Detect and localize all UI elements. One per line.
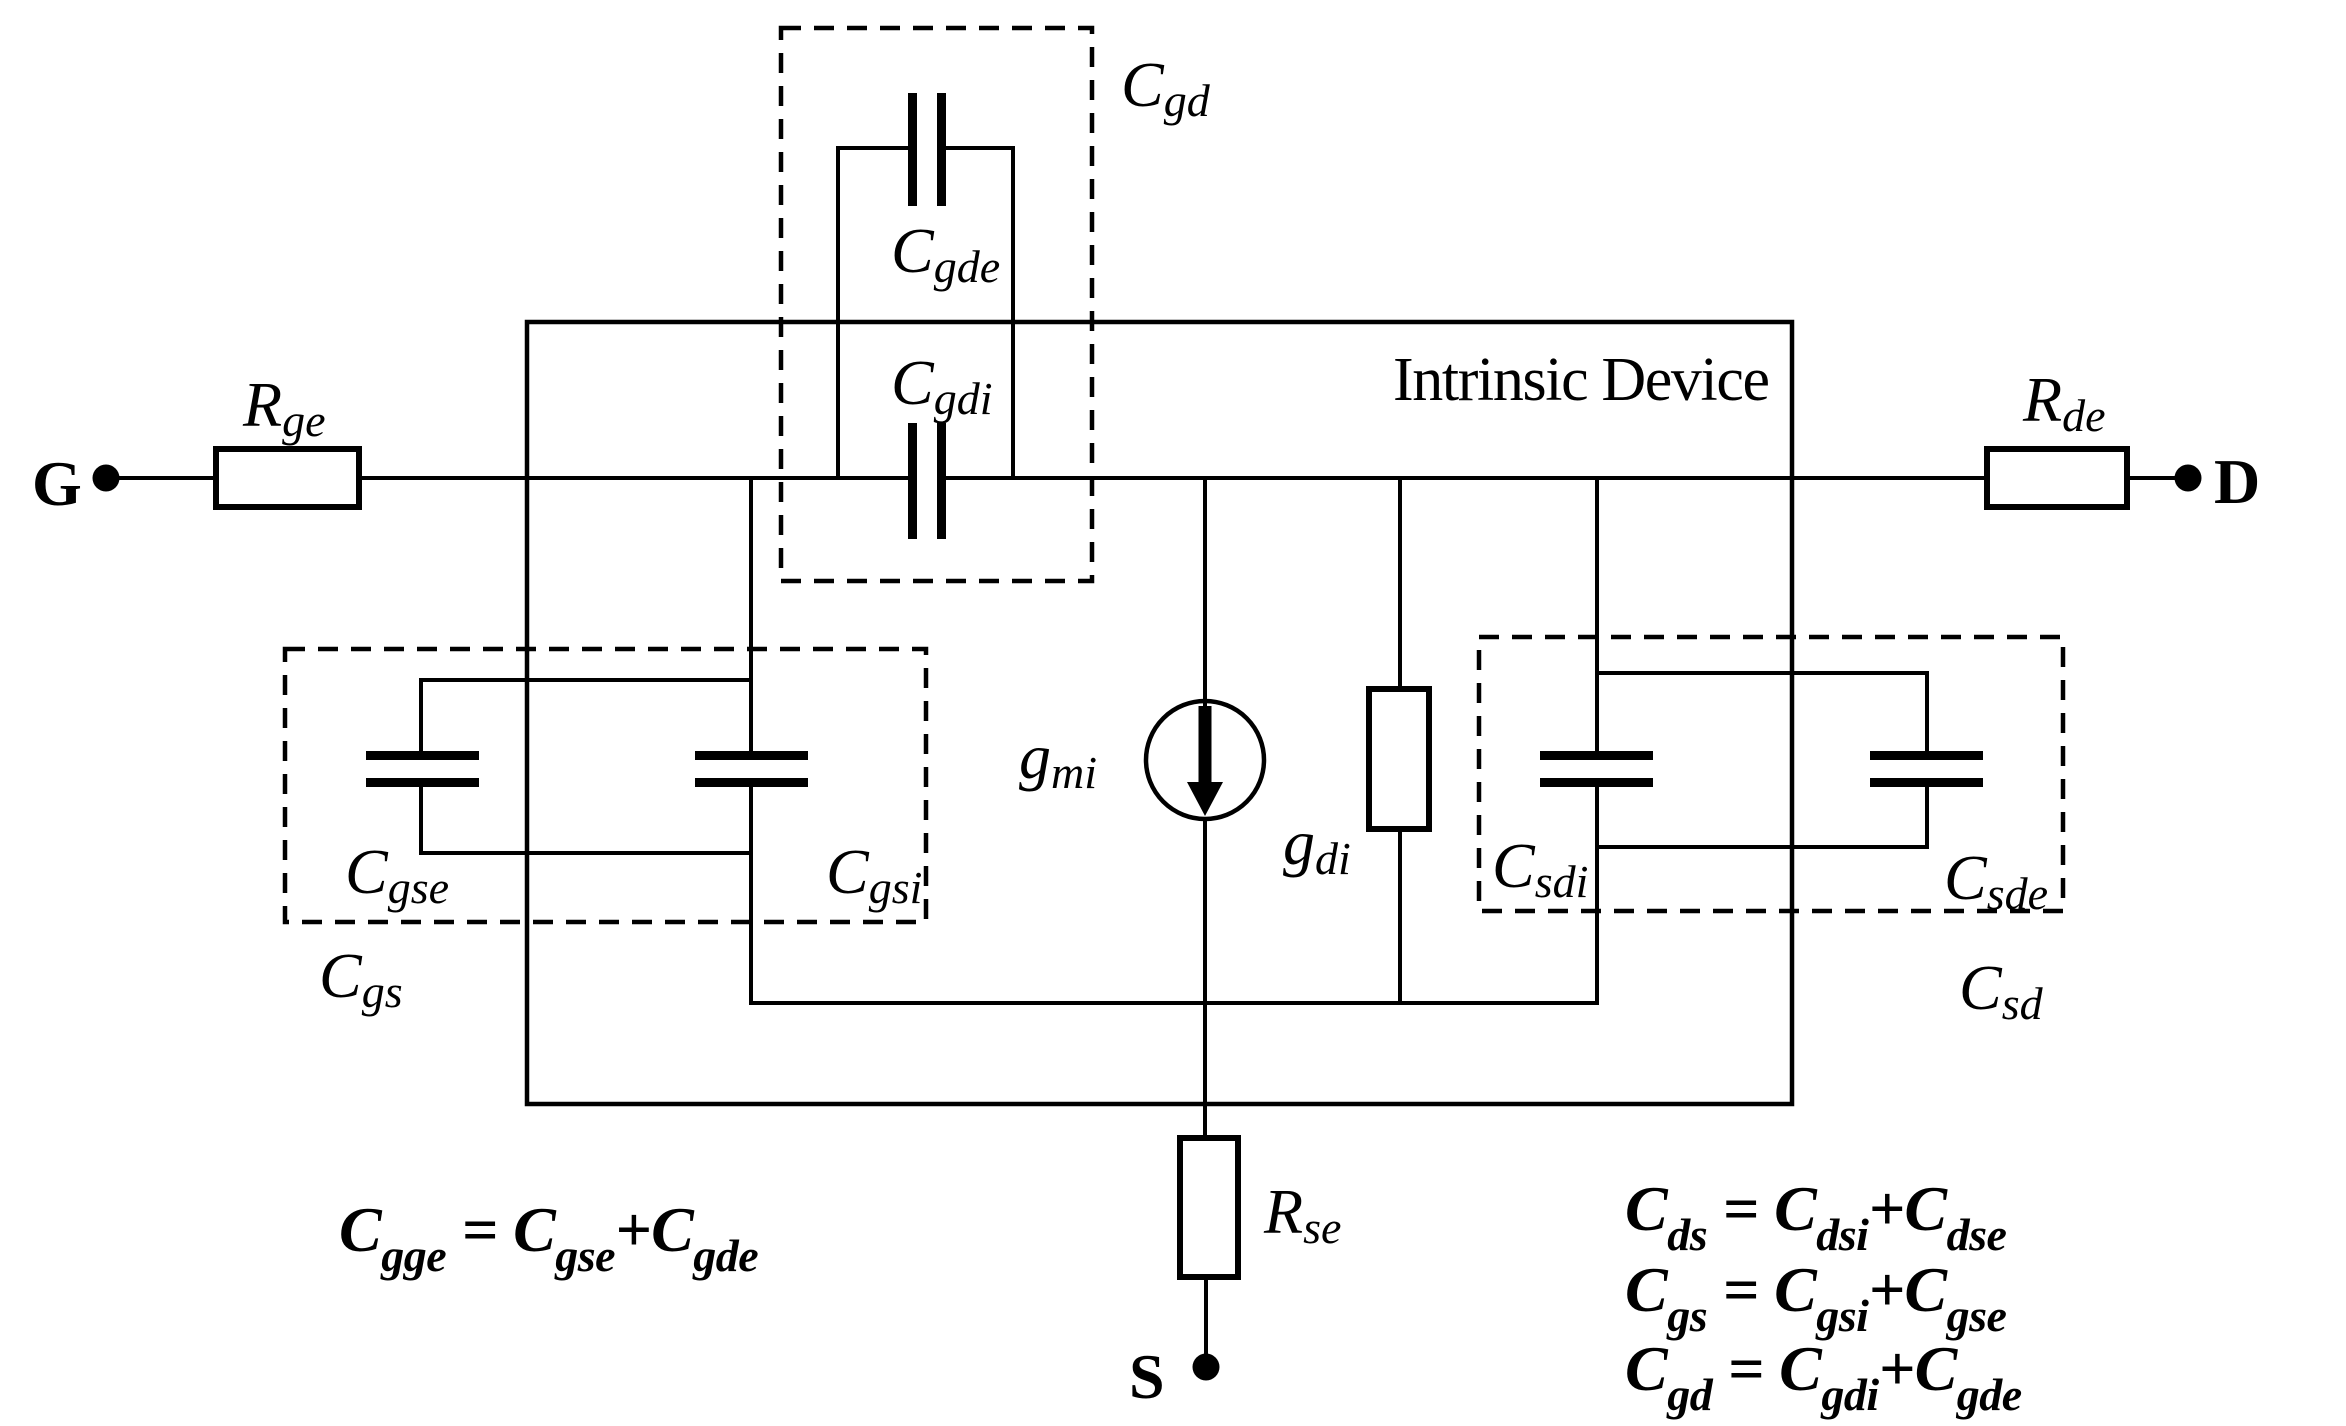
- wire source rail: [751, 1001, 1597, 1005]
- capacitor Cgsi: [695, 751, 808, 787]
- wire Cgde right vertical: [1011, 146, 1015, 478]
- wire drain down to gdi: [1398, 478, 1402, 689]
- dashed box Cgd: [781, 28, 1092, 581]
- wire Cgsi down to source rail: [749, 786, 753, 1005]
- wire Cgde left vertical: [836, 146, 840, 478]
- wire Csdi down to source rail: [1595, 786, 1599, 1005]
- intrinsic device box: [527, 322, 1792, 1104]
- wire Rge to gate node: [359, 476, 908, 480]
- terminal G: [32, 448, 120, 519]
- capacitor Csde: [1870, 751, 1983, 787]
- svg-text:D: D: [2214, 446, 2260, 517]
- svg-text:S: S: [1129, 1341, 1165, 1412]
- svg-text:Intrinsic Device: Intrinsic Device: [1393, 346, 1770, 414]
- wire Cgde top left: [836, 146, 908, 150]
- wire Cgs top rail: [421, 678, 751, 682]
- capacitor Cgse: [366, 751, 479, 787]
- wire gdi down to source rail: [1398, 829, 1402, 1005]
- dashed box Csd: [1479, 637, 2063, 911]
- wire Rde to D: [2130, 476, 2177, 480]
- capacitor Cgde: [908, 93, 946, 206]
- wire Cgs bottom rail: [421, 851, 751, 855]
- wire drain rail: [946, 476, 1987, 480]
- wire Csd bottom rail: [1597, 845, 1927, 849]
- current source gmi: [1146, 701, 1264, 819]
- wire gate down to Cgsi: [749, 478, 753, 754]
- capacitor Cgdi: [908, 423, 946, 539]
- resistor Rge: [216, 449, 359, 507]
- resistor Rde: [1987, 449, 2127, 507]
- wire Csde bottom stub: [1925, 786, 1929, 849]
- wire Cgse top stub: [419, 678, 423, 754]
- wire Csd top rail: [1597, 671, 1927, 675]
- wire drain down to Csdi: [1595, 478, 1599, 754]
- wire Cgse bottom stub: [419, 786, 423, 855]
- wire G to Rge: [118, 476, 216, 480]
- dashed box Cgs: [285, 649, 926, 922]
- resistor Rse: [1180, 1138, 1238, 1277]
- svg-text:G: G: [32, 448, 82, 519]
- terminal D: [2175, 446, 2261, 517]
- resistor gdi: [1369, 689, 1429, 829]
- wire Cgde top right: [946, 146, 1015, 150]
- terminal S: [1129, 1341, 1220, 1412]
- wire Rse to S: [1204, 1277, 1208, 1356]
- capacitor Csdi: [1540, 751, 1653, 787]
- wire drain down to gmi: [1203, 478, 1207, 706]
- wire gmi down to Rse: [1203, 817, 1207, 1138]
- wire Csde top stub: [1925, 671, 1929, 754]
